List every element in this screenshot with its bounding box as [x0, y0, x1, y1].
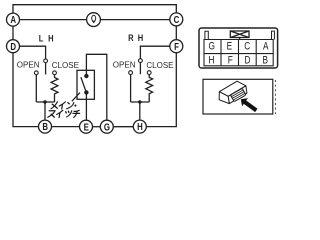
svg-text:CLOSE: CLOSE [146, 61, 173, 70]
svg-text:D: D [245, 55, 251, 67]
svg-text:B: B [263, 55, 269, 67]
svg-text:F: F [174, 41, 179, 52]
svg-text:OPEN: OPEN [17, 61, 40, 70]
svg-text:L: L [39, 33, 44, 44]
svg-text:R: R [128, 32, 133, 43]
svg-text:C: C [174, 14, 180, 25]
svg-text:E: E [227, 41, 233, 53]
svg-text:G: G [104, 121, 110, 132]
svg-text:F: F [228, 55, 233, 67]
svg-text:D: D [10, 41, 16, 52]
svg-text:G: G [208, 41, 214, 53]
svg-text:CLOSE: CLOSE [52, 61, 79, 70]
svg-text:A: A [10, 14, 16, 25]
svg-text:H: H [209, 55, 215, 67]
svg-text:H: H [48, 33, 53, 44]
svg-text:H: H [138, 32, 143, 43]
svg-text:H: H [137, 121, 143, 132]
svg-text:E: E [84, 121, 89, 132]
svg-text:C: C [244, 41, 250, 53]
svg-text:B: B [42, 121, 48, 132]
svg-text:A: A [263, 41, 269, 53]
svg-text:OPEN: OPEN [113, 61, 136, 70]
